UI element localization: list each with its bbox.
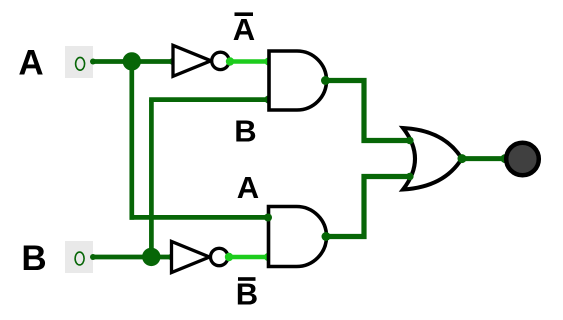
wire: AND1 output to OR input 1 — [321, 76, 414, 144]
wire: AND2 output to OR input 2 — [322, 173, 414, 241]
NOT gate U2 (inverter for B) — [172, 242, 228, 273]
wire B vertical: node B up to AND1 input 2 — [149, 100, 154, 258]
label Abar (net A-bar) — [233, 12, 255, 47]
svg-text:B: B — [236, 277, 258, 312]
junction node B — [142, 248, 160, 266]
label Bbar (net B-bar) — [236, 277, 258, 312]
output node (probe) — [506, 143, 539, 176]
OR gate U5 — [403, 128, 462, 190]
wire B across to AND1 input 2 — [149, 96, 272, 104]
svg-text:A: A — [233, 12, 255, 47]
AND gate U4 (bottom: A AND Bbar) — [269, 207, 327, 267]
wire Bbar: NOT2 output to AND2 input 2 (high) — [225, 253, 272, 261]
svg-text:A: A — [18, 44, 43, 83]
wire: node A down — [129, 61, 134, 219]
junction node A — [123, 52, 141, 70]
wire: A across to AND2 input 1 — [130, 215, 271, 220]
wire Abar: NOT1 output to AND1 input 1 (high) — [226, 57, 273, 65]
wire: OR output to output node — [458, 154, 510, 163]
junction: A wire into AND2 input — [264, 214, 272, 222]
wire B: pin B to NOT2 input — [92, 254, 175, 261]
input pin A — [65, 46, 96, 78]
NOT gate U1 (inverter for A) — [173, 45, 229, 76]
svg-text:B: B — [21, 239, 46, 278]
svg-text:A: A — [237, 170, 259, 205]
input pin B — [65, 241, 96, 273]
AND gate U3 (top: Abar AND B) — [269, 51, 327, 110]
svg-text:B: B — [234, 114, 256, 149]
wire A: pin A to NOT1 input — [92, 58, 176, 65]
